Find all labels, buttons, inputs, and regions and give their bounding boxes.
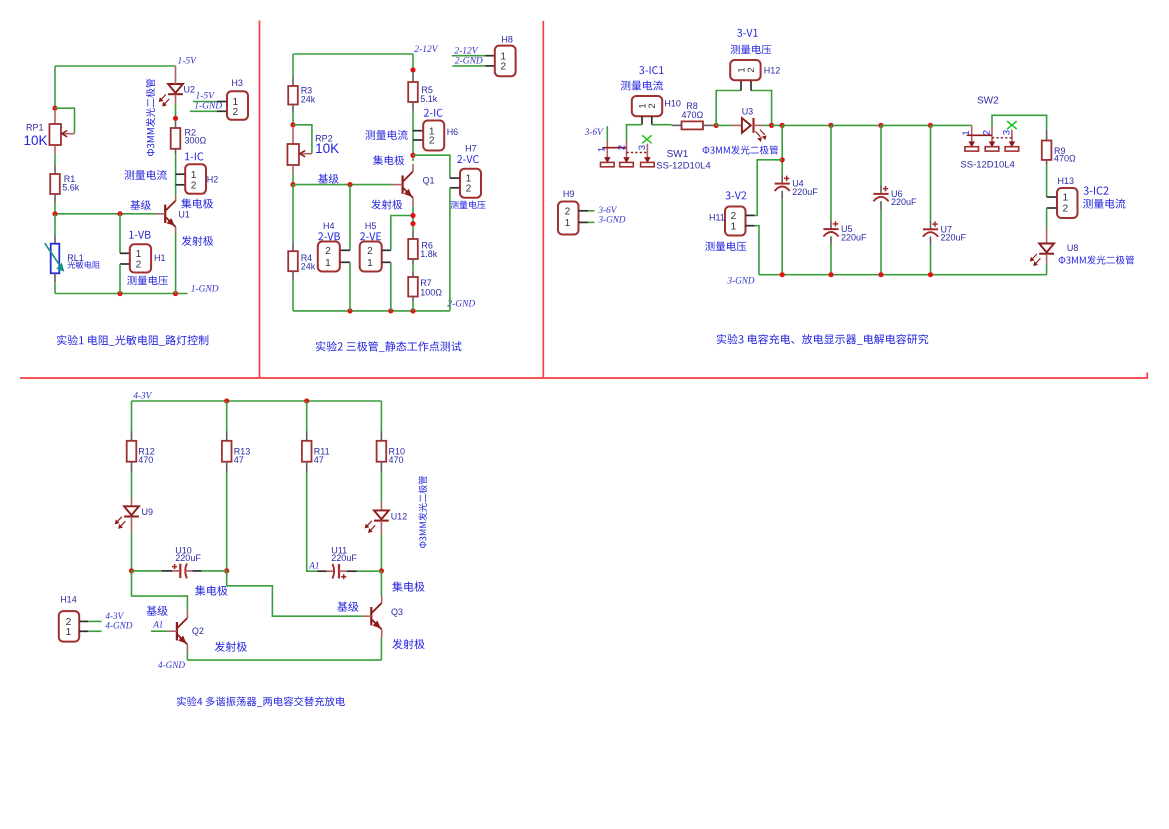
label 测量电压 of H7 bbox=[450, 201, 485, 209]
label R10 bbox=[389, 446, 406, 456]
svg-text:2-12V: 2-12V bbox=[454, 47, 478, 57]
label U4 bbox=[792, 179, 804, 189]
wire collector to H7 bbox=[413, 155, 450, 178]
wire bus U7 to SW2 bbox=[931, 124, 972, 126]
wire H11 pin1 to ground bbox=[755, 226, 759, 275]
pin number 2 of H14 bbox=[66, 617, 72, 628]
net label 3-GND at H9 bbox=[598, 215, 626, 225]
svg-text:2: 2 bbox=[1062, 204, 1068, 215]
node base-left junction exp2 bbox=[290, 182, 295, 187]
node ground-R7 junction bbox=[410, 308, 415, 313]
svg-text:SS-12D10L4: SS-12D10L4 bbox=[960, 159, 1014, 170]
svg-text:2-GND: 2-GND bbox=[455, 57, 483, 67]
net label 3-GND bbox=[727, 275, 755, 285]
lead U11 left2 bbox=[327, 570, 333, 572]
svg-text:5.6k: 5.6k bbox=[62, 182, 80, 192]
label 测量电压 of H1 bbox=[127, 276, 168, 286]
label 集电极 exp2 bbox=[373, 155, 404, 165]
label 基级 of Q3 bbox=[337, 602, 358, 612]
label R12 bbox=[138, 446, 155, 456]
header H6 (2-IC) bbox=[423, 121, 444, 151]
net label A1 at Q2 bbox=[152, 619, 163, 629]
wire H1 pin2 to ground bbox=[119, 264, 121, 294]
wire U5 top bbox=[830, 125, 832, 220]
label H10 bbox=[664, 99, 681, 109]
lead R2 top bbox=[175, 122, 177, 129]
lead R1 top bbox=[54, 166, 56, 175]
switch SW2 pin 2 bbox=[985, 127, 999, 152]
svg-text:H14: H14 bbox=[60, 594, 77, 604]
net label 3-6V at SW1 bbox=[584, 127, 604, 137]
wire R11 to U11 bbox=[307, 472, 318, 572]
resistor R10 bbox=[377, 441, 387, 462]
wire Q3 emitter to ground bbox=[380, 638, 382, 661]
lead U6 bottom bbox=[880, 201, 882, 210]
svg-text:3: 3 bbox=[1001, 130, 1012, 135]
pin number 2 of H11 bbox=[730, 211, 736, 222]
node ground-U7 junction bbox=[928, 272, 933, 277]
svg-text:U9: U9 bbox=[142, 507, 154, 517]
node right column junction bbox=[410, 67, 415, 72]
pin number 1 of H3 bbox=[232, 97, 238, 108]
label 3-IC1 bbox=[639, 66, 663, 74]
svg-text:4-3V: 4-3V bbox=[133, 391, 152, 401]
lead R6 bottom bbox=[412, 259, 414, 264]
lead RP1 bottom bbox=[54, 145, 56, 154]
wire R4 to ground rail bbox=[292, 280, 294, 311]
capacitor U4 bbox=[775, 176, 790, 191]
svg-text:3-6V: 3-6V bbox=[584, 127, 604, 137]
label 基级 exp2 bbox=[318, 174, 338, 184]
switch SW2 common bar bbox=[967, 134, 992, 136]
wire H12 pin1 down bbox=[716, 91, 741, 126]
svg-text:1-5V: 1-5V bbox=[178, 57, 198, 67]
transistor U1 bbox=[165, 201, 175, 227]
value 10K of RP2 bbox=[315, 141, 339, 156]
label Q1 bbox=[423, 176, 435, 186]
label RP1 bbox=[26, 122, 44, 132]
svg-text:U2: U2 bbox=[184, 85, 196, 95]
lead U12 anode bbox=[380, 502, 382, 511]
svg-text:H4: H4 bbox=[323, 221, 335, 231]
wire H12 pin2 down bbox=[751, 91, 772, 126]
LED U9 bbox=[115, 506, 139, 528]
label H1 bbox=[154, 253, 166, 263]
pin stub H12 pin1 bbox=[740, 80, 742, 90]
lead RP2 top bbox=[292, 128, 294, 145]
value 100Ω bbox=[420, 287, 442, 297]
pin stub H2 pin2 bbox=[176, 184, 186, 186]
wire H13 pin2 to U8 bbox=[1046, 208, 1048, 228]
svg-text:RL1: RL1 bbox=[67, 253, 84, 263]
label 测量电流 of H13 bbox=[1083, 199, 1125, 209]
wire Q2 emitter to ground bbox=[186, 653, 188, 661]
svg-text:Q1: Q1 bbox=[423, 176, 435, 186]
lead R6 top bbox=[412, 231, 414, 240]
value 470Ω of R8 bbox=[682, 110, 704, 120]
value 24k of R4 bbox=[301, 262, 316, 272]
label R5 bbox=[421, 85, 433, 95]
lead Q1 emitter bbox=[412, 198, 414, 206]
lead Q1 collector bbox=[412, 164, 414, 171]
lead R10 top bbox=[380, 431, 382, 441]
lead U11 left bbox=[317, 570, 327, 572]
wire H7 pin2 to ground bbox=[449, 188, 451, 311]
wire H9 pin1 bbox=[588, 221, 594, 223]
net label 1-GND at H3 bbox=[194, 102, 222, 112]
pin stub H3 pin2 bbox=[217, 110, 227, 112]
pin number 1 of H6 bbox=[429, 126, 435, 137]
label U5 bbox=[841, 224, 853, 234]
svg-text:H8: H8 bbox=[501, 34, 513, 44]
wire bus U4 to U5 bbox=[782, 124, 831, 126]
svg-text:A1: A1 bbox=[152, 619, 163, 629]
lead R3 bottom bbox=[292, 105, 294, 113]
lead U7 top bbox=[930, 221, 932, 229]
capacitor U10 bbox=[172, 564, 187, 579]
wire 3-GND bottom rail bbox=[759, 274, 1047, 276]
lead Q1 base bbox=[392, 184, 402, 186]
label SW1 bbox=[667, 149, 689, 160]
svg-text:220uF: 220uF bbox=[941, 233, 967, 243]
wire left column R3 top bbox=[292, 54, 294, 78]
pin number 1 of H11 bbox=[730, 221, 736, 232]
node base-H4 junction bbox=[347, 182, 352, 187]
potentiometer RP2 bbox=[287, 144, 311, 165]
net label A1 at U11 bbox=[308, 561, 319, 571]
svg-text:U8: U8 bbox=[1067, 243, 1079, 253]
label H11 bbox=[709, 213, 725, 223]
lead RP1 top bbox=[54, 111, 56, 124]
lead Q2 base bbox=[168, 630, 177, 632]
wire H10 pin2 to R8 bbox=[652, 124, 672, 126]
label 光敏电阻 bbox=[68, 261, 100, 269]
svg-text:47: 47 bbox=[234, 455, 244, 465]
value 47 of R11 bbox=[314, 455, 324, 465]
pin number 2 of H2 bbox=[191, 180, 197, 191]
pin number 2 of H5 bbox=[367, 246, 373, 257]
lead R13 top bbox=[226, 431, 228, 441]
header H7 (2-VC) bbox=[460, 169, 481, 198]
wire R5 to collector node bbox=[412, 111, 414, 162]
svg-text:H2: H2 bbox=[207, 174, 219, 184]
node cap row right junction bbox=[379, 568, 384, 573]
label H4 bbox=[323, 221, 335, 231]
svg-text:1-GND: 1-GND bbox=[191, 284, 219, 294]
lead U4 top bbox=[781, 175, 783, 183]
resistor R7 bbox=[408, 277, 418, 297]
pin number 1 of H13 bbox=[1062, 193, 1068, 204]
wire R10 column bbox=[380, 401, 382, 431]
lead R7 top bbox=[412, 272, 414, 277]
label 3-IC2 bbox=[1084, 187, 1109, 195]
wire U6 bottom bbox=[880, 210, 882, 275]
svg-text:2: 2 bbox=[746, 67, 757, 72]
node 1-5V junction at RP1 bbox=[52, 106, 57, 111]
svg-text:SS-12D10L4: SS-12D10L4 bbox=[656, 160, 710, 171]
svg-text:2: 2 bbox=[325, 246, 331, 257]
lead U11 right2 bbox=[339, 570, 347, 572]
wire RL1 to ground rail bbox=[54, 282, 56, 293]
header H8 bbox=[495, 46, 516, 77]
wire bus U5 to U6 bbox=[831, 124, 881, 126]
net label 2-12V at H8 bbox=[454, 47, 478, 57]
header H5 (2-VE) bbox=[360, 242, 382, 272]
label U6 bbox=[891, 189, 903, 199]
header H4 (2-VB) bbox=[318, 242, 340, 272]
lead R9 top bbox=[1046, 130, 1048, 141]
wire U3 cathode bbox=[763, 124, 772, 126]
svg-text:300Ω: 300Ω bbox=[185, 135, 207, 145]
capacitor U5 bbox=[823, 221, 838, 236]
pin stub H8 pin2 bbox=[485, 65, 495, 67]
pin number 3 of SW1 bbox=[637, 145, 648, 150]
resistor R2 bbox=[171, 128, 181, 149]
pin number 1 of H5 bbox=[367, 258, 373, 269]
svg-text:H3: H3 bbox=[231, 78, 243, 88]
label H14 bbox=[60, 594, 77, 604]
net label 1-5V bbox=[178, 57, 198, 67]
wire H5 pin2 to emitter bbox=[391, 216, 413, 251]
node U4-H11 junction bbox=[780, 157, 785, 162]
svg-text:2: 2 bbox=[616, 145, 627, 150]
photoresistor RL1 body bbox=[51, 244, 60, 274]
pin stub H9 pin1 bbox=[579, 221, 589, 223]
net label 1-GND bottom bbox=[191, 284, 219, 294]
pin number 2 of H9 bbox=[565, 206, 571, 217]
net label 4-GND at H14 bbox=[105, 621, 132, 631]
value 1.8k bbox=[420, 249, 438, 259]
wire 3-6V stub bbox=[606, 126, 608, 141]
svg-text:2: 2 bbox=[429, 136, 435, 147]
label 集电极 of Q3 bbox=[392, 582, 424, 592]
label RP2 bbox=[315, 133, 333, 143]
pin number 1 of SW1 bbox=[597, 147, 608, 152]
label 发射极 exp2 bbox=[371, 200, 402, 210]
title 实验4 多谐振荡器_两电容交替充放电 bbox=[177, 697, 345, 707]
pin stub H7 pin2 bbox=[450, 187, 460, 189]
wire 4-GND bottom rail bbox=[187, 659, 381, 661]
wire RP2 to base rail bbox=[292, 174, 294, 185]
node U2 cathode junction bbox=[173, 116, 178, 121]
resistor R6 bbox=[408, 239, 418, 259]
svg-text:RP1: RP1 bbox=[26, 122, 44, 132]
net label 2-GND bbox=[447, 299, 475, 309]
svg-text:24k: 24k bbox=[301, 95, 316, 105]
node cap row left junction bbox=[129, 568, 134, 573]
pin number 2 of H10 bbox=[647, 103, 658, 108]
svg-text:470Ω: 470Ω bbox=[1054, 153, 1076, 163]
node base-left junction bbox=[52, 211, 57, 216]
LED U2 bbox=[159, 84, 183, 106]
pin number 2 of H12 bbox=[746, 67, 757, 72]
wire H4 pin2 to base bbox=[349, 185, 351, 251]
node bus-U5 junction bbox=[828, 123, 833, 128]
wire H5 pin1 to ground bbox=[390, 262, 392, 311]
label R6 bbox=[421, 240, 433, 250]
wire RP2 wiper loop bbox=[293, 125, 312, 154]
header H2 (1-IC) bbox=[185, 164, 206, 194]
lead Q3 emitter bbox=[381, 629, 383, 637]
label RL1 bbox=[67, 253, 84, 263]
divider between experiment 1 and 2 bbox=[259, 21, 261, 379]
label 3-V1 bbox=[737, 29, 758, 37]
wire R9 to H13 bbox=[1046, 164, 1048, 197]
label R1 bbox=[64, 174, 76, 184]
wire base to H1 pin1 bbox=[119, 214, 121, 254]
wire R6 to R7 bbox=[412, 264, 414, 272]
label 基级 of Q2 bbox=[146, 606, 167, 616]
lead R5 top bbox=[412, 74, 414, 83]
net label 1-5V at H3 bbox=[196, 92, 216, 102]
value 47 of R13 bbox=[234, 455, 244, 465]
svg-text:4-GND: 4-GND bbox=[158, 660, 185, 670]
svg-text:47: 47 bbox=[314, 455, 324, 465]
divider between experiment 2 and 3 bbox=[542, 21, 544, 378]
LED U12 bbox=[365, 510, 389, 532]
resistor R8 bbox=[682, 121, 704, 129]
label 测量电流 of H10 bbox=[621, 80, 663, 90]
lead R11 bottom bbox=[306, 462, 308, 472]
pin number 2 of H7 bbox=[466, 183, 472, 194]
label 基级 of U1 bbox=[130, 200, 150, 210]
lead R11 top bbox=[306, 431, 308, 441]
pin number 1 of H1 bbox=[136, 249, 142, 260]
wire Q3 base cross bbox=[227, 571, 363, 616]
svg-text:1: 1 bbox=[597, 147, 608, 152]
pin number 2 of H4 bbox=[325, 246, 331, 257]
wire Q1 emitter down bbox=[412, 206, 414, 231]
net label 3-6V at H9 bbox=[598, 205, 618, 215]
lead U10 right bbox=[192, 570, 201, 572]
lead U2 anode bbox=[175, 66, 177, 84]
svg-text:1: 1 bbox=[367, 258, 373, 269]
wire U4 bottom bbox=[781, 199, 783, 274]
lead U10 left2 bbox=[172, 570, 179, 572]
resistor R13 bbox=[222, 441, 232, 462]
node collector junction exp2 bbox=[410, 153, 415, 158]
net label 2-12V bbox=[414, 45, 438, 55]
svg-text:5.1k: 5.1k bbox=[420, 94, 438, 104]
wire R13 to cap row bbox=[226, 472, 228, 571]
svg-text:1: 1 bbox=[730, 221, 736, 232]
label 2-VB bbox=[318, 232, 340, 240]
wire Q2 collector cross bbox=[132, 571, 188, 610]
header H3 bbox=[227, 91, 248, 120]
header H12 (3-V1) bbox=[730, 60, 760, 80]
svg-text:1: 1 bbox=[191, 170, 197, 181]
label 测量电流 exp2 bbox=[365, 130, 407, 140]
svg-text:2: 2 bbox=[191, 180, 197, 191]
label H12 bbox=[764, 65, 781, 75]
svg-text:2: 2 bbox=[466, 183, 472, 194]
svg-text:220uF: 220uF bbox=[331, 553, 357, 563]
value 24k of R3 bbox=[301, 95, 316, 105]
value 220uF of U4 bbox=[792, 187, 818, 197]
svg-text:2: 2 bbox=[982, 130, 993, 135]
capacitor U11 bbox=[332, 564, 346, 580]
resistor R4 bbox=[288, 251, 298, 271]
value 5.6k bbox=[62, 182, 80, 192]
wire U11 right bbox=[357, 570, 382, 572]
wire R1 to base node bbox=[54, 203, 56, 214]
lead R12 top bbox=[131, 431, 133, 441]
switch SW2 dashed throw bbox=[992, 137, 1012, 139]
wire base rail bbox=[55, 213, 156, 215]
lead R8 left bbox=[672, 124, 682, 126]
lead U8 anode bbox=[1046, 228, 1048, 244]
header H9 bbox=[558, 202, 579, 235]
svg-text:H5: H5 bbox=[365, 221, 377, 231]
wire 1-5V top rail bbox=[55, 65, 176, 67]
lead U12 cathode bbox=[380, 521, 382, 535]
capacitor U6 bbox=[873, 186, 888, 201]
svg-text:10K: 10K bbox=[24, 133, 48, 148]
svg-text:470Ω: 470Ω bbox=[682, 110, 704, 120]
svg-text:SW1: SW1 bbox=[667, 149, 689, 160]
lead U3 anode bbox=[731, 124, 742, 126]
wire bus U3 to U4 bbox=[772, 124, 783, 126]
label SW2 bbox=[977, 96, 999, 107]
label Φ3MM发光二极管 vertical bbox=[146, 79, 155, 156]
wire U7 bottom bbox=[930, 245, 932, 275]
lead R13 bottom bbox=[226, 462, 228, 472]
node ground-U4 junction bbox=[780, 272, 785, 277]
svg-text:2-12V: 2-12V bbox=[414, 45, 438, 55]
label 发射极 of Q3 bbox=[392, 639, 424, 649]
value 10K of RP1 bbox=[24, 133, 48, 148]
label 发射极 of U1 bbox=[182, 236, 214, 246]
svg-text:H6: H6 bbox=[447, 127, 459, 137]
svg-text:Q3: Q3 bbox=[391, 607, 403, 617]
node ground-emitter junction bbox=[173, 291, 178, 296]
svg-text:10K: 10K bbox=[315, 141, 339, 156]
label H8 bbox=[501, 34, 513, 44]
header H14 bbox=[59, 611, 79, 642]
label U2 bbox=[184, 85, 196, 95]
svg-text:3-GND: 3-GND bbox=[727, 275, 755, 285]
wire 2-12V top rail bbox=[293, 53, 413, 55]
label 测量电压 of H11 bbox=[705, 241, 746, 251]
lead R9 bottom bbox=[1046, 160, 1048, 165]
svg-text:220uF: 220uF bbox=[175, 553, 201, 563]
label U3 bbox=[742, 107, 754, 117]
header H10 (3-IC1) bbox=[632, 96, 662, 116]
node base-H1 junction bbox=[117, 211, 122, 216]
pin number 1 of H2 bbox=[191, 170, 197, 181]
svg-text:220uF: 220uF bbox=[891, 197, 917, 207]
resistor R5 bbox=[408, 82, 418, 102]
pin stub H14 pin1 bbox=[79, 630, 88, 632]
svg-text:2: 2 bbox=[136, 260, 142, 271]
pin number 1 of H8 bbox=[500, 51, 506, 62]
label 1-VB bbox=[129, 231, 150, 239]
lead R1 bottom bbox=[54, 194, 56, 203]
pin stub H10 pin1 bbox=[641, 116, 643, 125]
label R7 bbox=[420, 278, 432, 288]
label U8 bbox=[1067, 243, 1079, 253]
svg-text:H11: H11 bbox=[709, 213, 725, 223]
switch SW1 pin 3 bbox=[641, 144, 655, 167]
label U10 bbox=[175, 545, 192, 555]
svg-text:U1: U1 bbox=[178, 210, 190, 220]
lead Q2 collector bbox=[186, 610, 188, 619]
svg-text:SW2: SW2 bbox=[977, 96, 999, 107]
svg-text:U3: U3 bbox=[742, 107, 754, 117]
pin stub H4 pin2 bbox=[340, 249, 350, 251]
node emitter junction b bbox=[410, 221, 415, 226]
wire R10 to U12 bbox=[380, 472, 382, 502]
